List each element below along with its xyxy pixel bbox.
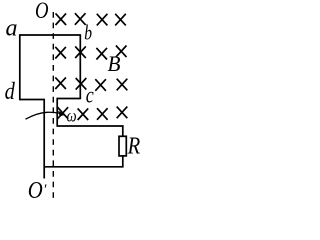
field cross r4c2 [78, 108, 89, 120]
left lead wire down from bottom-left side [43, 99, 45, 179]
field cross r3c1 [55, 77, 66, 89]
field cross r1c4 [115, 14, 126, 26]
field cross r2c3 [96, 48, 107, 60]
resistor R box [119, 136, 126, 156]
loop bottom-right side to c [57, 98, 80, 100]
loop top side a-b [20, 34, 81, 36]
field cross r1c2 [75, 13, 86, 25]
field cross r2c4 [116, 46, 127, 58]
rotation arc with arrowhead (angular velocity direction) [26, 112, 60, 119]
svg-text:a: a [6, 16, 18, 42]
svg-text:c: c [86, 82, 94, 107]
loop right side b-c [79, 34, 81, 99]
field cross r2c2 [75, 46, 86, 58]
field cross r4c4 [117, 107, 128, 119]
bottom circuit wire from resistor [44, 156, 123, 167]
loop left side a-d [19, 34, 21, 100]
loop bottom-left side from d [20, 99, 44, 101]
axis OO' dashed line [52, 12, 54, 199]
field cross r3c4 [117, 79, 128, 91]
field cross r3c2 [76, 78, 87, 90]
svg-text:R: R [127, 134, 141, 160]
svg-text:O: O [35, 0, 49, 23]
top circuit wire to resistor [57, 126, 123, 137]
field cross r1c3 [97, 14, 108, 26]
field cross r4c3 [97, 108, 108, 120]
field cross r3c3 [95, 79, 106, 91]
field cross r1c1 [56, 13, 67, 25]
field cross r2c1 [55, 47, 66, 59]
field cross r4c1 [58, 107, 69, 119]
svg-text:d: d [5, 79, 16, 105]
right lead wire down from bottom-right side [56, 98, 58, 127]
